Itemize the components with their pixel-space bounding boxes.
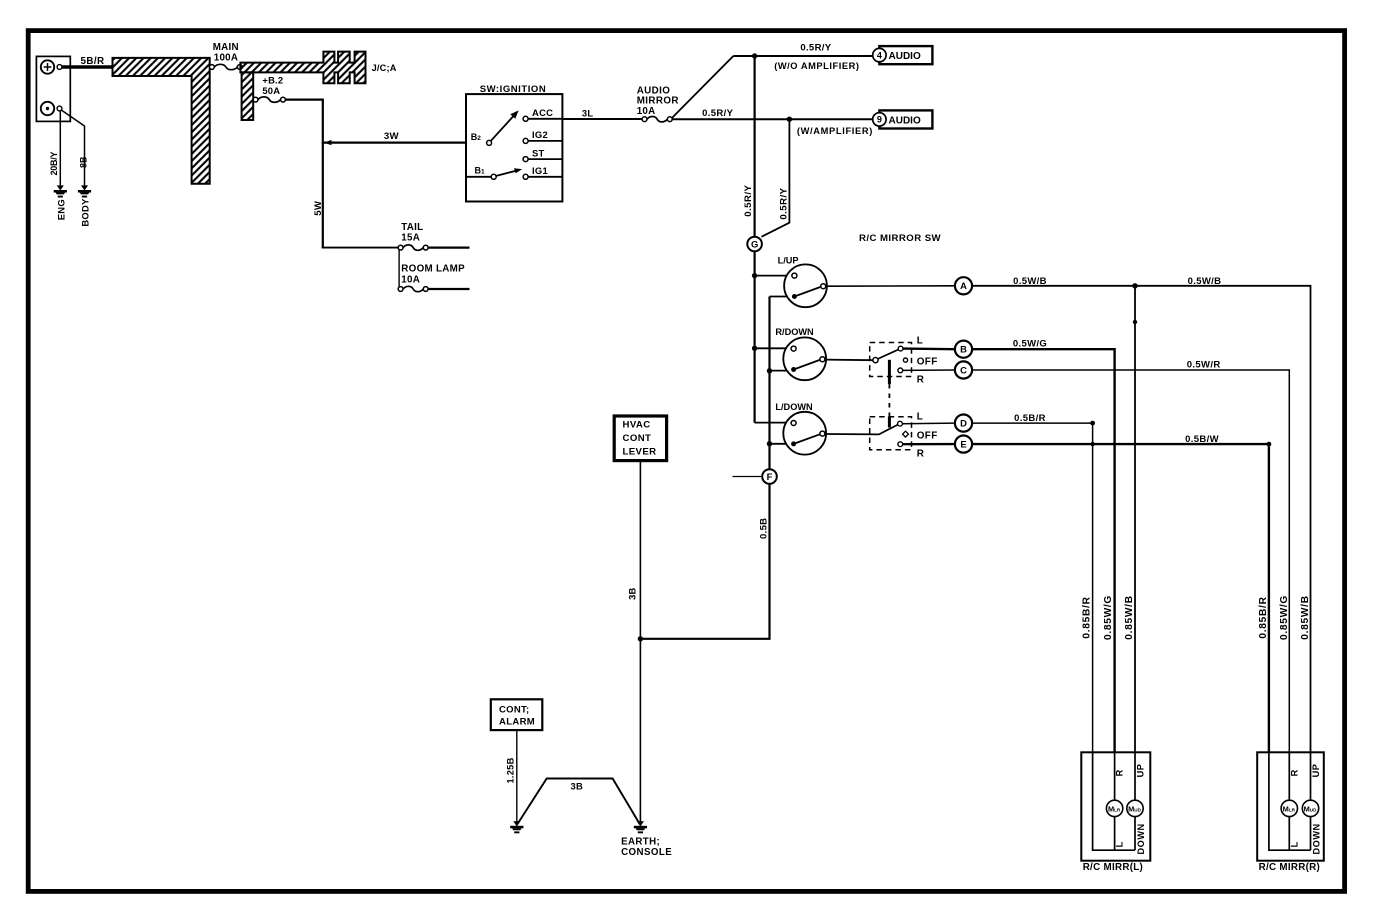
wire 1.25B from CONT ALARM to ground <box>516 730 518 826</box>
svg-text:UP: UP <box>1311 764 1321 778</box>
terminal B2 <box>487 140 492 145</box>
ground ENG <box>57 185 64 190</box>
L/DOWN switch right terminal <box>820 431 825 436</box>
svg-text:R/C MIRROR SW: R/C MIRROR SW <box>859 233 942 244</box>
svg-text:0.85B/R: 0.85B/R <box>1082 596 1093 638</box>
motor M UD (R/C MIRR(L)) <box>1127 800 1143 816</box>
selector switch 1 (dashed box) <box>870 343 912 377</box>
R/DOWN switch top-left terminal <box>791 346 796 351</box>
wire to L/DOWN bottom terminal <box>770 443 793 445</box>
svg-text:3B: 3B <box>627 587 638 599</box>
svg-text:20B/Y: 20B/Y <box>49 151 59 175</box>
wire 3B earth strap (trapezoid) <box>518 779 640 825</box>
wire selector2 L to node D <box>902 422 954 425</box>
mirror assembly R/C MIRR(L) <box>1081 752 1150 860</box>
selector 2 lever (thick) <box>888 417 891 428</box>
wire 0.5R/Y vertical drop (right) <box>762 119 790 237</box>
switch arm B2-ACC <box>491 115 515 141</box>
svg-text:AUDIO: AUDIO <box>889 51 921 62</box>
wire main vertical from G <box>753 252 755 423</box>
svg-text:OFF: OFF <box>917 356 938 367</box>
svg-text:SW:IGNITION: SW:IGNITION <box>480 84 547 95</box>
wire second vertical to node F <box>768 297 770 469</box>
fusible link bus drop (hatched vertical) <box>242 72 254 120</box>
mirror assembly R/C MIRR(R) <box>1257 752 1324 860</box>
svg-text:AUDIO: AUDIO <box>889 116 921 127</box>
svg-text:R: R <box>1115 769 1125 776</box>
svg-text:5W: 5W <box>313 200 324 216</box>
L/DOWN switch bottom-left terminal <box>791 441 796 446</box>
connector 9 AUDIO <box>879 110 932 128</box>
junction dot at E corner <box>1267 442 1272 447</box>
svg-text:C: C <box>960 364 967 375</box>
svg-text:0.5B/R: 0.5B/R <box>1014 413 1046 424</box>
svg-text:0.85W/G: 0.85W/G <box>1103 595 1114 640</box>
wire from ROOM LAMP fuse (continues) <box>428 288 469 290</box>
svg-text:R/C MIRR(L): R/C MIRR(L) <box>1083 862 1143 873</box>
wire 0.5R/Y vertical drop (left) <box>753 56 755 236</box>
svg-text:CONT;: CONT; <box>499 704 530 715</box>
svg-text:0.5R/Y: 0.5R/Y <box>743 185 754 217</box>
wire selector1 R to node C <box>903 369 954 371</box>
svg-text:TAIL: TAIL <box>401 222 423 233</box>
selector 2 terminal L <box>898 421 903 426</box>
svg-text:1.25B: 1.25B <box>506 757 516 783</box>
svg-text:R/C MIRR(R): R/C MIRR(R) <box>1259 862 1321 873</box>
svg-text:50A: 50A <box>262 85 280 96</box>
fuse +B.2 50A <box>253 97 258 102</box>
fuse MAIN 100A <box>210 65 215 70</box>
fusible link bus bar 2 with junction connector J/C;A (hatched) <box>240 52 365 84</box>
svg-text:ALARM: ALARM <box>499 717 535 728</box>
wire 0.85W/B drop to left mirror <box>1134 286 1136 753</box>
svg-text:B: B <box>960 344 967 355</box>
wire 3L from ACC to AUDIO MIRROR fuse <box>562 118 644 120</box>
svg-text:MAIN: MAIN <box>213 42 239 53</box>
svg-text:0.5W/R: 0.5W/R <box>1187 359 1221 370</box>
terminal ST <box>523 157 528 162</box>
svg-text:CONSOLE: CONSOLE <box>621 847 672 858</box>
svg-text:3W: 3W <box>384 131 400 142</box>
wire battery negative to BODY ground <box>62 110 85 185</box>
mechanical link (dashed) <box>888 384 890 417</box>
R/C MIRR(L) motor M-LR lead <box>1114 752 1116 850</box>
wire from L/UP bottom terminal <box>770 296 793 298</box>
svg-text:L/UP: L/UP <box>778 256 799 266</box>
svg-text:DOWN: DOWN <box>1136 823 1146 854</box>
lead line left of node F <box>733 476 762 478</box>
R/DOWN switch right terminal <box>820 357 825 362</box>
wire 0.5W/R node C to right mirror <box>973 370 1289 752</box>
terminal IG1 <box>523 174 528 179</box>
connector 4 AUDIO <box>879 46 932 64</box>
svg-text:E: E <box>960 438 966 449</box>
svg-text:0.5W/B: 0.5W/B <box>1188 276 1222 287</box>
junction dot at D corner <box>1090 421 1095 426</box>
junction A-line to left mirror <box>1132 283 1137 288</box>
svg-text:10A: 10A <box>401 275 420 286</box>
wire R/DOWN output to selector 1 common <box>825 359 873 362</box>
wire from +B.2 fuse to main feed node <box>285 100 322 144</box>
selector 1 terminal R <box>898 368 903 373</box>
svg-text:4: 4 <box>877 50 882 60</box>
L/UP switch right terminal <box>821 284 826 289</box>
wire selector2 R to node E <box>903 443 954 446</box>
R/DOWN switch wiper arm <box>794 359 822 369</box>
R/C MIRR(L) motor M-UD lead <box>1134 752 1136 850</box>
svg-text:0.5R/Y: 0.5R/Y <box>800 42 831 53</box>
svg-text:R/DOWN: R/DOWN <box>775 327 814 337</box>
wire to L/DOWN top terminal <box>753 422 755 423</box>
svg-text:0.85B/R: 0.85B/R <box>1258 596 1269 638</box>
stray dot at crossing <box>1090 442 1094 446</box>
selector 2 terminal OFF (diamond) <box>903 431 909 437</box>
junction to L/DOWN bottom <box>767 441 772 446</box>
svg-text:L: L <box>917 336 923 347</box>
svg-text:MIRROR: MIRROR <box>637 96 679 107</box>
svg-text:(W/AMPLIFIER): (W/AMPLIFIER) <box>797 126 873 136</box>
junction to L/UP top <box>752 273 757 278</box>
node C <box>955 361 972 378</box>
terminal IG2 <box>523 138 528 143</box>
component CONT; ALARM <box>491 699 543 730</box>
wire selector1 L to node B <box>903 347 954 350</box>
terminal B1 <box>491 174 496 179</box>
junction to R/DOWN bottom <box>767 368 772 373</box>
wire diagonal branch to w/o-amplifier line <box>672 56 733 118</box>
selector switch 2 (dashed box) <box>870 417 912 450</box>
svg-text:15A: 15A <box>401 233 420 244</box>
svg-text:0.5R/Y: 0.5R/Y <box>702 108 733 119</box>
svg-text:100A: 100A <box>214 53 238 64</box>
motor M UD (R/C MIRR(R)) <box>1302 800 1318 816</box>
R/DOWN switch bottom-left terminal <box>791 367 796 372</box>
svg-text:BODY: BODY <box>79 198 90 227</box>
R/C MIRR(L) common wire (down-across-up) <box>1093 752 1135 850</box>
wire L/DOWN output to selector 2 arm <box>825 433 879 435</box>
ground CONT ALARM <box>513 821 520 826</box>
svg-text:D: D <box>960 417 967 428</box>
svg-text:L: L <box>917 412 923 423</box>
switch arm B1-IG1 <box>496 171 516 176</box>
svg-text:0.5B/W: 0.5B/W <box>1185 434 1219 445</box>
svg-text:L: L <box>1289 841 1299 847</box>
wire 5W to TAIL fuse <box>322 247 401 249</box>
svg-text:0.5W/G: 0.5W/G <box>1013 338 1047 349</box>
component HVAC CONT LEVER <box>614 416 666 461</box>
selector 1 arm to L <box>878 350 898 359</box>
svg-text:0.85W/G: 0.85W/G <box>1279 595 1290 640</box>
svg-text:OFF: OFF <box>917 430 938 441</box>
L/UP switch wiper arm <box>794 286 822 296</box>
wire 5B/R battery positive to fusible link <box>62 65 114 68</box>
svg-text:+B.2: +B.2 <box>262 74 283 85</box>
ground EARTH CONSOLE <box>637 821 644 826</box>
L/DOWN switch top-left terminal <box>791 421 796 426</box>
wire 3B from HVAC to earth <box>639 461 641 826</box>
svg-text:3B: 3B <box>571 780 583 791</box>
svg-text:R: R <box>1289 769 1299 776</box>
svg-text:R: R <box>917 448 924 459</box>
svg-text:G: G <box>751 238 758 249</box>
svg-text:CONT: CONT <box>623 433 652 444</box>
svg-text:0.5W/B: 0.5W/B <box>1013 276 1047 287</box>
node G <box>747 237 762 252</box>
battery BAT <box>36 56 70 121</box>
node F <box>762 469 777 484</box>
wire 0.5B/W node E to right mirror <box>973 444 1269 752</box>
wire 0.5W/B node A to mirrors <box>973 286 1311 753</box>
L/UP switch bottom-left terminal <box>792 294 797 299</box>
svg-text:J/C;A: J/C;A <box>372 63 397 73</box>
wire branch to ROOM LAMP fuse <box>398 249 400 289</box>
svg-text:A: A <box>960 280 967 291</box>
svg-text:L/DOWN: L/DOWN <box>775 402 813 412</box>
selector 1 terminal L <box>898 346 903 351</box>
selector 2 arm to L <box>879 425 898 435</box>
wire to L/UP top terminal <box>755 275 792 277</box>
junction to R/DOWN top <box>752 346 757 351</box>
R/C MIRR(R) motor M-UD lead <box>1310 752 1312 850</box>
svg-text:0.85W/B: 0.85W/B <box>1300 595 1311 640</box>
wire to R/DOWN top terminal <box>755 347 792 349</box>
selector 1 lever (thick) <box>888 360 891 384</box>
svg-text:(W/O AMPLIFIER): (W/O AMPLIFIER) <box>774 61 859 71</box>
svg-text:ENG: ENG <box>55 199 66 220</box>
arrowhead on 3W wire <box>324 140 332 145</box>
junction 0.5B joins 3B <box>638 636 643 641</box>
svg-text:R: R <box>917 375 924 386</box>
svg-text:IG1: IG1 <box>532 165 548 176</box>
wire 0.5B from F to console earth run <box>641 484 769 638</box>
wire L/UP output to node A <box>827 285 954 287</box>
fusible link bus bar 1 (hatched L-shape) <box>113 58 210 184</box>
node D <box>955 415 972 432</box>
wire 5W vertical feed <box>322 143 324 249</box>
node E <box>955 436 972 453</box>
selector 1 terminal OFF <box>903 358 907 362</box>
switch L/DOWN switch <box>783 412 826 455</box>
svg-text:HVAC: HVAC <box>623 420 651 431</box>
fuse AUDIO MIRROR 10A <box>642 117 647 122</box>
junction on w-amplifier line <box>787 117 792 122</box>
svg-text:ROOM LAMP: ROOM LAMP <box>401 263 465 274</box>
svg-text:0.85W/B: 0.85W/B <box>1124 595 1135 640</box>
wire battery negative to ENG ground <box>59 111 61 186</box>
R/C MIRR(R) motor M-LR lead <box>1288 752 1290 850</box>
motor M LR (R/C MIRR(L)) <box>1106 800 1122 816</box>
fuse TAIL 15A <box>398 245 403 250</box>
wire 0.5W/G node B to left mirror <box>973 349 1115 752</box>
svg-text:EARTH;: EARTH; <box>621 837 660 848</box>
svg-text:F: F <box>767 471 773 482</box>
wire to R/DOWN bottom terminal <box>770 370 793 372</box>
svg-text:10A: 10A <box>637 106 656 117</box>
svg-text:IG2: IG2 <box>532 129 548 140</box>
L/DOWN switch wiper arm <box>794 434 822 444</box>
ground BODY <box>81 185 88 190</box>
svg-text:UP: UP <box>1136 764 1146 778</box>
terminal ACC <box>523 116 528 121</box>
node A <box>955 277 972 294</box>
wire from TAIL fuse (continues) <box>428 247 469 249</box>
wire 0.5R/Y to AUDIO connector 4 (w/o amplifier) <box>733 55 872 57</box>
svg-text:8B: 8B <box>79 156 89 168</box>
fuse ROOM LAMP 10A <box>398 287 403 292</box>
svg-text:5B/R: 5B/R <box>81 56 105 67</box>
svg-text:DOWN: DOWN <box>1312 823 1322 854</box>
selector 2 terminal R <box>898 442 903 447</box>
wire 3W feed to ignition switch <box>323 142 466 144</box>
ignition switch SW:IGNITION <box>466 94 562 201</box>
motor M LR (R/C MIRR(R)) <box>1281 800 1297 816</box>
L/UP switch top-left terminal <box>792 273 797 278</box>
junction on w/o-amplifier line <box>752 53 757 58</box>
svg-text:9: 9 <box>877 115 882 125</box>
switch R/DOWN switch <box>783 337 826 380</box>
svg-text:LEVER: LEVER <box>623 446 657 457</box>
switch L/UP switch <box>784 264 827 307</box>
svg-text:ST: ST <box>532 147 545 158</box>
wire 0.5R/Y to AUDIO connector 9 (w/amplifier) <box>672 118 873 120</box>
svg-text:L: L <box>1115 841 1125 847</box>
svg-text:ACC: ACC <box>532 107 553 118</box>
svg-text:3L: 3L <box>582 107 593 118</box>
svg-text:0.5R/Y: 0.5R/Y <box>779 187 790 219</box>
wire 0.5B/R node D to left mirror <box>973 423 1093 752</box>
node B <box>955 341 972 358</box>
R/C MIRR(R) common wire (down-across-up) <box>1269 752 1311 850</box>
stray junction dot <box>1133 320 1137 324</box>
svg-text:0.5B: 0.5B <box>758 518 769 539</box>
selector 1 common terminal <box>873 358 878 363</box>
